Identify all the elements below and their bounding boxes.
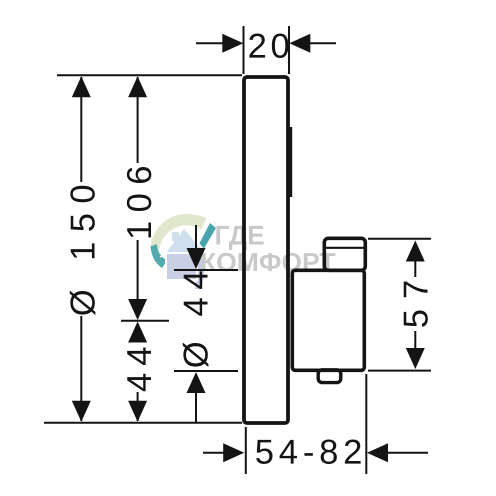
svg-text:ГДЕ: ГДЕ: [215, 221, 265, 251]
svg-text:44: 44: [121, 340, 159, 392]
svg-text:20: 20: [248, 28, 294, 66]
svg-text:54-82: 54-82: [255, 434, 367, 472]
svg-text:КОМФОРТ: КОМФОРТ: [200, 247, 336, 277]
svg-text:Ø 44: Ø 44: [178, 263, 216, 368]
svg-text:106: 106: [121, 157, 159, 240]
svg-text:Ø 150: Ø 150: [65, 175, 103, 316]
svg-text:57: 57: [398, 270, 436, 328]
